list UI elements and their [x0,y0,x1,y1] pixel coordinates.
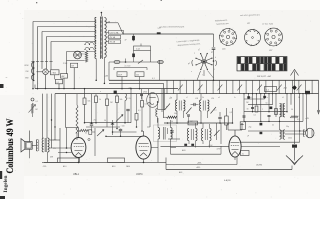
svg-text:50k: 50k [174,113,177,115]
svg-text:4V 1A: 4V 1A [110,36,116,39]
svg-text:6,3V 0,9A: 6,3V 0,9A [110,31,119,34]
svg-text:a: a [166,106,167,108]
svg-text:0,1: 0,1 [57,82,60,84]
svg-text:25p: 25p [249,127,252,129]
svg-text:L18: L18 [195,98,198,100]
svg-text:0,3: 0,3 [230,112,233,114]
svg-text:2 A61: 2 A61 [52,72,57,75]
svg-text:k: k [215,57,216,59]
svg-text:4x: 4x [242,153,244,155]
svg-text:0,3: 0,3 [145,104,148,106]
svg-text:0,2: 0,2 [297,119,299,121]
svg-text:UBL1: UBL1 [73,173,80,176]
svg-text:4k: 4k [272,125,274,127]
svg-text:50k: 50k [120,99,123,101]
svg-text:3b: 3b [202,97,204,99]
svg-text:KW: KW [26,71,29,73]
svg-text:+AG: +AG [283,87,288,90]
svg-text:2W: 2W [50,157,53,159]
svg-text:7a: 7a [266,97,268,99]
svg-text:Columbus 49 W: Columbus 49 W [5,119,15,174]
svg-text:4 A(2/0: 4 A(2/0 [224,179,231,182]
svg-text:L1 Tast. Tw30: L1 Tast. Tw30 [262,22,273,25]
svg-text:50p: 50p [286,126,289,128]
svg-text:g1: g1 [211,52,213,54]
svg-text:L17: L17 [169,98,172,100]
svg-text:5k: 5k [85,133,87,135]
svg-text:ZW 4,627 + AZ: ZW 4,627 + AZ [257,75,272,78]
svg-text:5AM: 5AM [126,165,130,168]
svg-text:a4: a4 [218,97,220,99]
svg-text:50: 50 [104,120,106,122]
svg-text:a: a [262,108,263,110]
svg-text:a: a [299,96,300,98]
svg-text:+4V: +4V [305,118,309,120]
svg-text:25: 25 [184,101,186,103]
svg-text:a2W: a2W [53,140,57,142]
svg-text:500: 500 [136,74,139,76]
svg-text:UKW: UKW [24,65,28,67]
svg-text:100: 100 [122,126,125,128]
svg-text:3W: 3W [71,66,74,68]
svg-text:4V 2A: 4V 2A [110,41,116,44]
svg-text:A-12000 | Gleichrichtung gep.: A-12000 | Gleichrichtung gep. [159,25,185,28]
svg-text:50: 50 [266,102,268,104]
svg-text:1k: 1k [99,99,101,101]
svg-text:50k: 50k [88,101,91,103]
svg-text:0,1: 0,1 [214,110,217,112]
svg-text:c2: c2 [186,97,188,99]
svg-text:0,1: 0,1 [138,110,141,112]
svg-text:5c: 5c [234,97,236,99]
svg-text:30: 30 [247,108,249,110]
svg-text:~: ~ [6,76,8,80]
svg-text:0,1: 0,1 [36,101,39,103]
svg-text:2000: 2000 [288,138,292,140]
svg-text:UCH5: UCH5 [256,164,263,166]
svg-text:AW: AW [62,75,65,78]
svg-text:A10: A10 [63,165,66,168]
svg-text:uF: uF [247,136,249,138]
svg-text:MW: MW [25,78,28,80]
svg-text:-A48-: -A48- [196,166,201,169]
svg-text:A48: A48 [179,171,182,174]
svg-text:0,1: 0,1 [254,115,256,117]
svg-text:a: a [100,91,101,93]
svg-text:Ingelen: Ingelen [4,175,9,192]
svg-text:s: s [191,71,192,73]
svg-text:a: a [194,53,195,55]
svg-text:b6: b6 [250,97,252,99]
svg-text:50: 50 [291,109,293,111]
svg-text:L27: L27 [247,23,250,25]
svg-text:L20: L20 [211,98,214,100]
svg-text:UCH4: UCH4 [136,173,143,176]
svg-text:0,1: 0,1 [152,78,155,80]
svg-text:25p: 25p [94,120,97,122]
svg-text:c8: c8 [282,97,284,99]
svg-text:50: 50 [171,121,173,123]
svg-text:ws 500: ws 500 [125,66,131,68]
svg-text:-2W-: -2W- [43,166,47,168]
svg-text:L15: L15 [128,98,131,100]
svg-text:-A4B-: -A4B- [197,162,202,165]
svg-text:2W: 2W [53,148,56,150]
svg-text:g2: g2 [188,63,190,65]
svg-text:A16: A16 [112,165,115,168]
